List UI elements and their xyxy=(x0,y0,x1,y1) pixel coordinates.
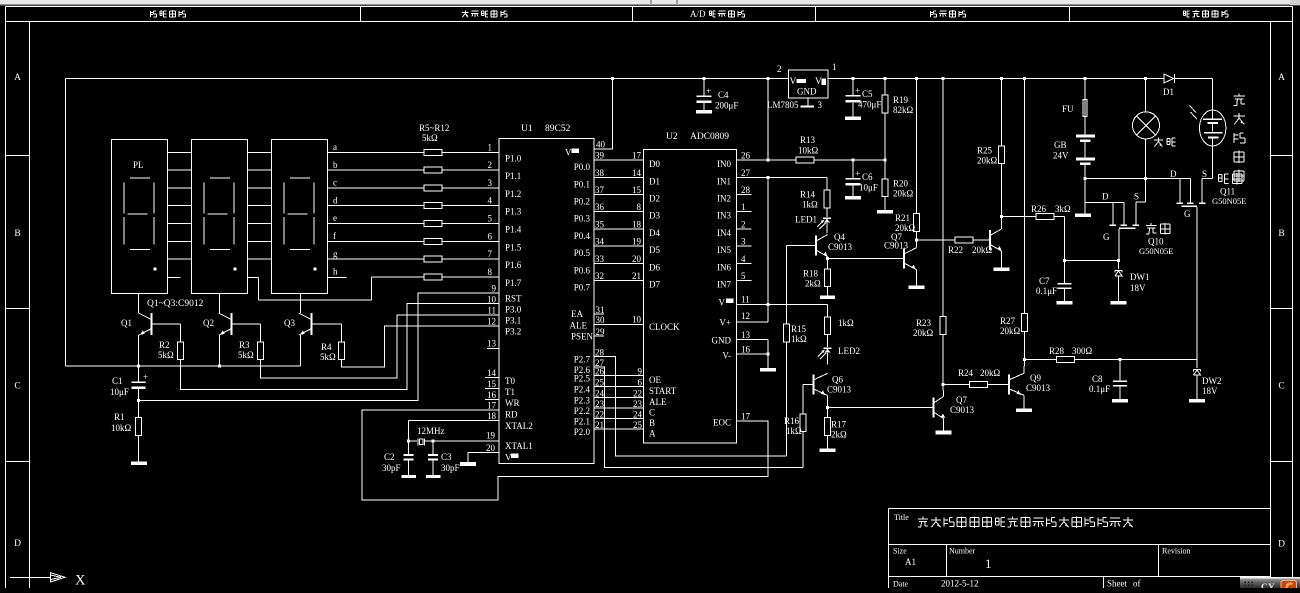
wire Q3 base to R4 xyxy=(312,323,342,325)
svg-text:20kΩ: 20kΩ xyxy=(913,328,934,338)
zener DW1 18V xyxy=(1118,261,1120,269)
svg-text:T0: T0 xyxy=(505,376,515,386)
svg-text:START: START xyxy=(649,386,677,396)
svg-text:0.1μF: 0.1μF xyxy=(1036,286,1057,296)
svg-text:LM7805: LM7805 xyxy=(767,100,799,110)
svg-text:P2.2: P2.2 xyxy=(574,406,590,416)
svg-text:C6: C6 xyxy=(862,172,873,182)
svg-text:10μF: 10μF xyxy=(110,387,129,397)
label 负载 xyxy=(1154,139,1163,141)
ground below pin20 xyxy=(460,462,476,466)
svg-text:16: 16 xyxy=(487,390,497,400)
resistor R20 20k ohm xyxy=(884,160,886,179)
svg-text:10: 10 xyxy=(487,294,497,304)
svg-text:D1: D1 xyxy=(1163,87,1174,97)
right zone divider ticks xyxy=(1271,155,1293,157)
svg-text:d: d xyxy=(333,195,338,205)
svg-text:Q2: Q2 xyxy=(203,318,214,328)
svg-text:+: + xyxy=(143,372,148,382)
wire V+ pin12 up to Vref riser xyxy=(737,321,769,323)
crystal Y1 12MHz symbol xyxy=(417,438,419,445)
svg-text:470μF: 470μF xyxy=(858,100,881,110)
svg-text:P1.1: P1.1 xyxy=(505,171,521,181)
resistor R19 82k ohm xyxy=(884,77,887,80)
resistor network R5~R12 5k ohm bodies xyxy=(424,149,442,155)
svg-text:P0.3: P0.3 xyxy=(574,214,591,224)
svg-text:R22: R22 xyxy=(948,245,963,255)
resistor R23 20k ohm xyxy=(940,317,946,335)
tab label 充放电电路 xyxy=(1183,10,1185,12)
lamp load 负载 xyxy=(1145,79,1147,113)
svg-text:P2.1: P2.1 xyxy=(574,417,590,427)
resistor R17 2k ohm xyxy=(827,408,829,418)
wire sample divider node R13 row xyxy=(767,77,770,80)
svg-text:A: A xyxy=(649,429,656,439)
svg-text:B: B xyxy=(1278,229,1284,239)
svg-text:XTAL2: XTAL2 xyxy=(505,421,533,431)
svg-text:C: C xyxy=(649,408,655,418)
transistor Q8 C9013 middle xyxy=(989,230,991,250)
svg-text:17: 17 xyxy=(632,151,642,161)
svg-text:h: h xyxy=(333,267,338,277)
svg-text:P0.2: P0.2 xyxy=(574,197,590,207)
sheet outer border xyxy=(6,6,1293,8)
svg-text:PL: PL xyxy=(133,160,144,170)
wire pin20 Vss to ground xyxy=(468,452,499,462)
svg-text:IN6: IN6 xyxy=(717,262,731,272)
zener DW2 18V xyxy=(1196,360,1198,369)
svg-text:C9013: C9013 xyxy=(827,385,852,395)
resistor R26 3k ohm xyxy=(1002,216,1037,218)
svg-text:IN3: IN3 xyxy=(717,211,731,221)
svg-text:RST: RST xyxy=(505,293,522,303)
svg-text:P3.1: P3.1 xyxy=(505,315,521,325)
wire DS3 dp stub xyxy=(328,276,347,278)
svg-text:R5~R12: R5~R12 xyxy=(419,123,449,133)
wire Q7b emitter to ground xyxy=(943,419,945,431)
svg-text:Q9: Q9 xyxy=(1030,373,1041,383)
ground below R1 xyxy=(131,462,147,465)
capacitor C7 0.1uF xyxy=(1064,261,1066,283)
svg-text:+: + xyxy=(855,87,860,97)
transistor Q2 C9012 xyxy=(231,313,233,335)
U1 pin 13 stub xyxy=(487,348,499,350)
svg-text:R21: R21 xyxy=(895,213,910,223)
svg-text:A1: A1 xyxy=(905,557,916,567)
wire +12V rail right of regulator xyxy=(828,78,1164,80)
LED LED2 xyxy=(827,335,829,347)
label 放电 xyxy=(1150,223,1152,225)
svg-text:3: 3 xyxy=(741,237,746,247)
wire DS1 dp stub xyxy=(168,276,181,278)
svg-text:CLOCK: CLOCK xyxy=(649,322,680,332)
svg-text:4: 4 xyxy=(488,196,493,206)
svg-text:GND: GND xyxy=(797,87,817,97)
svg-text:27: 27 xyxy=(741,168,751,178)
svg-text:IN4: IN4 xyxy=(717,228,731,238)
svg-text:18: 18 xyxy=(487,411,497,421)
svg-text:S: S xyxy=(1134,192,1139,202)
svg-text:ALE: ALE xyxy=(570,320,588,330)
wire IN1 to R14 branch xyxy=(737,176,769,178)
junction R23 R24 Q7b collector xyxy=(942,383,945,386)
transistor Q3 C9012 xyxy=(311,313,313,335)
svg-text:C4: C4 xyxy=(718,90,729,100)
svg-text:P0.6: P0.6 xyxy=(574,265,591,275)
svg-text:17: 17 xyxy=(487,400,497,410)
7-segment display DS1 xyxy=(112,140,168,294)
wire net P3.0 from R2 xyxy=(181,303,500,389)
wire Q9 emitter to ground xyxy=(1023,395,1025,408)
7-segment display DS3 xyxy=(272,140,328,294)
svg-text:R23: R23 xyxy=(916,318,932,328)
wire DS3 common to Q3 collector xyxy=(300,294,302,314)
svg-text:31: 31 xyxy=(596,305,605,315)
junction Q2 emitter on +5V rail xyxy=(218,364,221,367)
junction C8 node xyxy=(1119,358,1122,361)
svg-text:4: 4 xyxy=(741,254,746,264)
junction pin40 riser on rail xyxy=(611,77,614,80)
tab label 驱动电路 xyxy=(929,11,931,17)
svg-text:Q7: Q7 xyxy=(956,395,967,405)
svg-text:20kΩ: 20kΩ xyxy=(980,368,1001,378)
svg-text:26: 26 xyxy=(741,151,751,161)
svg-text:3: 3 xyxy=(818,100,823,110)
svg-text:GND: GND xyxy=(712,336,732,346)
transistor Q4 C9013 xyxy=(815,236,817,256)
svg-text:P1.5: P1.5 xyxy=(505,242,522,252)
svg-text:C1: C1 xyxy=(112,376,123,386)
svg-text:EA: EA xyxy=(571,309,583,319)
junction Q1 emitter on +5V rail xyxy=(137,364,140,367)
capacitor C8 0.1uF xyxy=(1119,360,1121,381)
wire Vref pin11 row to LED2 resistor xyxy=(737,303,828,305)
svg-text:D: D xyxy=(1278,540,1285,550)
svg-text:34: 34 xyxy=(595,237,605,247)
wire ALE pin30 to U2 CLOCK pin10 xyxy=(594,323,644,325)
svg-text:1kΩ: 1kΩ xyxy=(786,426,802,436)
svg-text:D3: D3 xyxy=(649,211,660,221)
label 充电 xyxy=(1219,174,1222,176)
junction RST node xyxy=(137,399,140,402)
svg-text:PSEN: PSEN xyxy=(571,332,594,342)
svg-text:R25: R25 xyxy=(977,146,993,156)
svg-text:R18: R18 xyxy=(803,269,819,279)
svg-text:C8: C8 xyxy=(1092,374,1103,384)
transistor Q7 C9013 first xyxy=(903,249,905,269)
svg-text:b: b xyxy=(333,160,338,170)
svg-text:DW1: DW1 xyxy=(1130,272,1150,282)
svg-text:20kΩ: 20kΩ xyxy=(977,156,998,166)
regulator U3 LM7805 box xyxy=(789,70,829,98)
svg-text:19: 19 xyxy=(486,431,496,441)
svg-text:20: 20 xyxy=(486,443,496,453)
svg-text:20kΩ: 20kΩ xyxy=(1000,326,1021,336)
svg-text:R28: R28 xyxy=(1049,346,1065,356)
svg-text:V: V xyxy=(719,298,726,308)
wire Q2 base to R3 xyxy=(232,323,261,325)
svg-text:1kΩ: 1kΩ xyxy=(791,334,807,344)
resistor R16 1k ohm xyxy=(800,414,806,432)
wire Q6 emitter node to Q7b base xyxy=(827,395,829,407)
svg-text:P3.0: P3.0 xyxy=(505,304,522,314)
svg-text:15: 15 xyxy=(632,185,642,195)
svg-text:D: D xyxy=(1170,169,1177,179)
svg-text:D0: D0 xyxy=(649,159,660,169)
svg-text:39: 39 xyxy=(595,151,605,161)
capacitor C4 200uF xyxy=(703,77,706,80)
LED LED1 xyxy=(826,208,828,217)
svg-text:C: C xyxy=(1278,382,1284,392)
title block frame xyxy=(889,508,1271,510)
svg-text:R13: R13 xyxy=(800,135,816,145)
svg-text:RD: RD xyxy=(505,409,518,419)
svg-text:Q1~Q3:C9012: Q1~Q3:C9012 xyxy=(147,299,204,309)
wire P2.7 pin28 to R15 bottom bus xyxy=(594,357,787,456)
resistor R14 1k ohm xyxy=(826,177,828,190)
U1 pin 31 EA stub xyxy=(594,313,604,315)
wire battery node to lamp node to Q11 D xyxy=(1085,178,1191,180)
resistor R22 20k ohm xyxy=(917,239,956,241)
svg-text:ADC0809: ADC0809 xyxy=(690,132,729,142)
svg-text:P2.5: P2.5 xyxy=(574,374,591,384)
svg-text:D: D xyxy=(1102,192,1109,202)
svg-text:IN1: IN1 xyxy=(717,176,731,186)
regulator pin 3 stub xyxy=(807,98,809,106)
transistor Q1 C9012 xyxy=(151,313,153,335)
crystal circuit 12MHz xyxy=(409,419,500,421)
resistor R4 5k ohm xyxy=(339,342,345,360)
junction R13 node at C6 xyxy=(852,159,855,162)
svg-text:8: 8 xyxy=(637,202,642,212)
svg-text:30pF: 30pF xyxy=(382,463,401,473)
svg-text:P1.6: P1.6 xyxy=(505,260,522,270)
wire net P3.2 from R4 xyxy=(342,326,500,367)
capacitor C3 30pF xyxy=(432,441,434,454)
wire +5V left rail xyxy=(65,79,67,366)
resistor R25 20k ohm from rail xyxy=(1000,77,1003,80)
label 太阳能电池 vertical xyxy=(1238,94,1240,97)
transistor Q6 C9013 xyxy=(813,374,815,394)
svg-text:P1.4: P1.4 xyxy=(505,225,522,235)
svg-text:10kΩ: 10kΩ xyxy=(798,146,819,156)
svg-text:R14: R14 xyxy=(800,190,816,200)
svg-text:3: 3 xyxy=(488,178,493,188)
svg-text:C9013: C9013 xyxy=(828,242,853,252)
U1 pin 29 PSEN stub xyxy=(594,335,604,337)
ground at battery branch xyxy=(1075,214,1091,218)
svg-text:2012-5-12: 2012-5-12 xyxy=(941,579,979,589)
svg-text:R3: R3 xyxy=(239,340,250,350)
svg-text:12MHz: 12MHz xyxy=(417,426,445,436)
svg-text:Q1: Q1 xyxy=(121,318,132,328)
svg-text:P0.5: P0.5 xyxy=(574,248,591,258)
svg-text:0.1μF: 0.1μF xyxy=(1089,384,1110,394)
wire +5V top rail left of regulator xyxy=(66,78,789,80)
svg-text:Title: Title xyxy=(894,513,909,522)
svg-text:DW2: DW2 xyxy=(1202,376,1222,386)
svg-text:36: 36 xyxy=(595,202,605,212)
sheet inner border xyxy=(29,22,31,589)
svg-text:WR: WR xyxy=(505,398,520,408)
svg-text:XTAL1: XTAL1 xyxy=(505,441,533,451)
svg-text:33: 33 xyxy=(595,254,605,264)
svg-text:A: A xyxy=(14,73,21,83)
svg-text:of: of xyxy=(1133,579,1141,589)
svg-text:P2.0: P2.0 xyxy=(574,427,591,437)
svg-text:11: 11 xyxy=(487,305,496,315)
wire pin40 Vcc to +5V rail xyxy=(594,79,613,150)
svg-text:V: V xyxy=(815,77,822,87)
svg-text:R1: R1 xyxy=(114,412,125,422)
svg-text:Date: Date xyxy=(893,580,909,589)
capacitor C2 30pF xyxy=(408,441,410,454)
svg-text:5kΩ: 5kΩ xyxy=(238,350,254,360)
svg-text:T1: T1 xyxy=(505,387,515,397)
svg-text:g: g xyxy=(333,249,338,259)
7-segment display DS2 xyxy=(192,140,248,294)
svg-text:R15: R15 xyxy=(791,324,807,334)
transistor Q9 C9013 xyxy=(1008,374,1010,394)
svg-text:32: 32 xyxy=(595,271,604,281)
resistor R15 1k ohm xyxy=(784,324,790,342)
svg-text:G: G xyxy=(1184,209,1191,219)
fuse FU xyxy=(1084,77,1087,80)
wire h net from corner riser to R12 to U1 pin8 xyxy=(372,276,425,278)
wire Q6 base to R16 riser xyxy=(803,383,814,385)
svg-text:17: 17 xyxy=(741,412,751,422)
svg-text:IN2: IN2 xyxy=(717,194,731,204)
svg-text:V+: V+ xyxy=(719,318,731,328)
wire Q8 collector to R25 node xyxy=(1001,217,1003,229)
svg-text:Q3: Q3 xyxy=(284,318,295,328)
svg-text:20: 20 xyxy=(632,254,642,264)
svg-text:1: 1 xyxy=(741,202,746,212)
svg-text:35: 35 xyxy=(595,219,605,229)
junction Q7 collector R21 R22 xyxy=(915,239,918,242)
tab label 单片机电路 xyxy=(462,11,469,13)
svg-text:13: 13 xyxy=(741,330,751,340)
svg-text:Size: Size xyxy=(893,547,907,556)
svg-text:+: + xyxy=(706,87,711,97)
resistor R28 300 ohm xyxy=(1025,359,1057,361)
svg-text:+: + xyxy=(855,170,860,180)
svg-text:V: V xyxy=(790,77,797,87)
svg-text:D1: D1 xyxy=(649,176,660,186)
svg-text:C2: C2 xyxy=(384,452,395,462)
svg-text:18V: 18V xyxy=(1202,386,1218,396)
svg-text:10: 10 xyxy=(632,315,642,325)
svg-text:LED2: LED2 xyxy=(838,346,860,356)
resistor R18 2k ohm xyxy=(827,259,829,269)
svg-text:P2.4: P2.4 xyxy=(574,385,591,395)
svg-text:ALE: ALE xyxy=(649,397,667,407)
svg-text:14: 14 xyxy=(487,368,497,378)
svg-text:13: 13 xyxy=(487,339,497,349)
svg-text:1: 1 xyxy=(985,556,992,571)
resistor R21 20k ohm from rail xyxy=(915,77,918,80)
svg-text:37: 37 xyxy=(595,185,605,195)
resistor R24 20k ohm xyxy=(943,383,970,385)
svg-text:30: 30 xyxy=(596,315,606,325)
svg-text:2: 2 xyxy=(488,160,493,170)
MOSFET Q11 G50N05E charge switch xyxy=(1212,138,1214,178)
svg-text:2: 2 xyxy=(741,219,746,229)
svg-text:G: G xyxy=(1103,232,1110,242)
svg-text:X: X xyxy=(75,573,86,589)
wire DS2 dp to riser xyxy=(248,276,259,278)
svg-text:C3: C3 xyxy=(441,452,452,462)
svg-text:82kΩ: 82kΩ xyxy=(893,105,914,115)
svg-text:18V: 18V xyxy=(1130,283,1146,293)
tab label 显示电路 xyxy=(149,11,151,17)
resistor R2 5k ohm xyxy=(178,342,184,360)
svg-text:D5: D5 xyxy=(649,245,660,255)
transistor Q7 C9013 second xyxy=(933,398,935,418)
svg-text:2kΩ: 2kΩ xyxy=(831,430,847,440)
wires display segment chain DS2-DS3 xyxy=(248,151,272,153)
wire GND pin13 and V- pin16 to ground xyxy=(737,339,769,341)
U1 pin stubs 14 15 16 T0 T1 WR xyxy=(485,377,499,379)
svg-text:R20: R20 xyxy=(893,179,909,189)
svg-text:Sheet: Sheet xyxy=(1107,579,1127,589)
svg-text:P0.7: P0.7 xyxy=(574,283,591,293)
svg-text:IN7: IN7 xyxy=(717,280,731,290)
wires U1 P0 bus to U2 D0-D7 xyxy=(594,159,644,161)
svg-text:5kΩ: 5kΩ xyxy=(422,133,438,143)
svg-text:29: 29 xyxy=(596,327,606,337)
svg-text:38: 38 xyxy=(595,168,605,178)
svg-text:B: B xyxy=(14,229,20,239)
svg-text:U1: U1 xyxy=(521,124,533,134)
svg-text:C9013: C9013 xyxy=(1026,383,1051,393)
svg-text:R27: R27 xyxy=(1000,316,1016,326)
top zone row dividers xyxy=(360,7,362,22)
svg-text:2kΩ: 2kΩ xyxy=(805,279,821,289)
svg-text:C9013: C9013 xyxy=(884,241,909,251)
svg-text:89C52: 89C52 xyxy=(545,124,571,134)
svg-text:C5: C5 xyxy=(862,89,873,99)
svg-text:8: 8 xyxy=(488,267,493,277)
svg-text:1: 1 xyxy=(488,142,493,152)
svg-text:R19: R19 xyxy=(893,95,909,105)
svg-text:R26: R26 xyxy=(1031,204,1047,214)
capacitor C6 10uF xyxy=(852,160,854,178)
svg-text:D4: D4 xyxy=(649,228,660,238)
svg-text:1kΩ: 1kΩ xyxy=(802,200,818,210)
svg-text:V: V xyxy=(505,452,512,462)
svg-text:Revision: Revision xyxy=(1162,547,1190,556)
svg-text:G50N05E: G50N05E xyxy=(1212,196,1246,206)
svg-text:P0.1: P0.1 xyxy=(574,179,590,189)
wire Q8 emitter to ground xyxy=(1001,251,1003,267)
solar photon slashes xyxy=(1190,106,1197,113)
svg-text:IN5: IN5 xyxy=(717,245,731,255)
svg-text:300Ω: 300Ω xyxy=(1072,346,1093,356)
svg-text:R17: R17 xyxy=(831,420,847,430)
svg-text:P1.3: P1.3 xyxy=(505,207,522,217)
svg-text:20kΩ: 20kΩ xyxy=(893,189,914,199)
resistor R13 10k ohm xyxy=(796,157,814,163)
solar cell 太阳能电池 symbol xyxy=(1200,110,1226,146)
svg-text:14: 14 xyxy=(632,168,642,178)
origin marker arrow X xyxy=(10,576,50,578)
battery GB 24V xyxy=(1084,117,1086,135)
wire Q1 base to R2 xyxy=(152,323,181,325)
svg-text:P1.7: P1.7 xyxy=(505,278,522,288)
svg-text:10kΩ: 10kΩ xyxy=(111,423,132,433)
resistor 1k ohm above LED2 xyxy=(827,304,829,317)
